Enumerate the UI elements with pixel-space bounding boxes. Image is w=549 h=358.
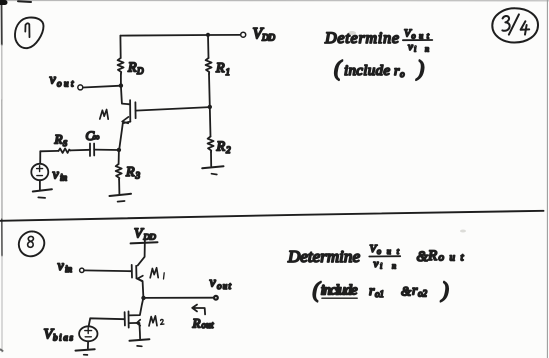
problem number 7 digit [25,23,29,37]
resistor R2 [208,137,214,153]
wire: rail down to R1 [207,35,210,58]
node: rail/R1 junction [206,33,210,37]
transistor M1 (P8) [132,265,144,298]
transistor M (P7) [119,86,135,150]
svg-text:v: v [53,168,60,183]
wire: Vin source up [39,151,41,163]
transistor M2 (P8) [125,298,144,339]
wire: Vout [83,86,121,88]
source Vbias [79,326,97,341]
source Vin (P7) [31,164,48,180]
scan artifact: top dash [18,0,31,3]
terminal Vin (P8) [80,268,84,272]
svg-text:&: & [401,284,412,299]
svg-text:V: V [134,227,144,242]
svg-text:out: out [217,281,231,291]
svg-text:o2: o2 [418,289,428,299]
label M2 (P8) [149,316,157,326]
svg-text:R: R [125,165,135,180]
node: R1-R2 junction [208,105,212,109]
label M (P7) [100,110,108,120]
wire: RD to drain node [120,74,122,86]
wire: RS to cap [71,149,91,152]
capacitor C∞ [93,144,95,156]
ground (R3) [110,194,132,196]
page label 3 [502,16,509,31]
scan artifact: bottom-left mark [1,350,3,351]
svg-text:include: include [321,283,358,299]
svg-text:R: R [427,248,437,264]
wire: junction to R2 [209,107,212,137]
svg-text:o: o [400,69,405,79]
svg-text:&: & [417,249,429,265]
svg-text:out: out [377,247,400,256]
scan artifact: right edge line [546,0,548,358]
ground (Vbias) [76,349,95,350]
node: drain/Vout junction [119,83,123,87]
terminal VDD [241,32,246,37]
arrow Rout [192,305,205,315]
svg-text:in: in [65,264,73,274]
svg-text:1: 1 [226,67,231,77]
resistor R3 [116,164,122,180]
svg-text:out: out [57,79,74,89]
resistor R1 [206,58,212,74]
problem number 7 circle [15,18,44,49]
svg-text:v: v [50,73,57,88]
wire: Vbias to ground [87,341,89,348]
svg-text:DD: DD [261,33,275,43]
wire: R1 to gate junction [208,74,211,107]
svg-text:R: R [54,132,63,147]
svg-text:3: 3 [135,171,141,181]
svg-text:v: v [210,276,217,291]
svg-text:Determine: Determine [324,30,399,47]
svg-text:∞: ∞ [93,132,99,142]
scan artifact: corner blob [0,0,5,5]
svg-text:Determine: Determine [287,247,360,266]
svg-text:include: include [344,63,390,79]
svg-text:): ) [415,56,424,81]
VDD supply bar (P8) [131,242,158,243]
label M1 (P8) [150,268,158,278]
svg-text:): ) [440,277,449,302]
wire: M2 gate to Vbias [89,318,125,326]
scan artifact: top edge line [0,0,549,2]
problem number 8 digit [28,236,34,247]
svg-text:out: out [202,320,214,330]
wire: junction to R3 [118,150,120,164]
page label 4 [521,21,530,34]
svg-text:v: v [374,258,379,270]
svg-text:D: D [136,66,144,76]
wire: Vin to RS [40,150,58,152]
wire: R3 to ground [118,180,120,194]
ground (R2) [202,166,223,168]
svg-text:v: v [408,41,413,53]
wire: R2 to ground [210,152,212,166]
svg-text:2: 2 [226,145,231,155]
terminal Vout (P7) [78,85,83,90]
wire: Vout (P8) [144,297,214,299]
scan artifact: left edge line [1,0,3,45]
svg-text:o1: o1 [375,289,384,299]
svg-text:R: R [192,316,201,331]
svg-text:S: S [63,139,67,148]
svg-text:v: v [58,259,65,274]
resistor RS [59,148,71,153]
ground (M2 source) [130,339,150,341]
svg-text:R: R [127,61,137,76]
svg-text:out: out [439,252,465,264]
wire: gate to divider [136,107,210,111]
separator line [0,211,544,221]
scan smudge marks [348,31,356,35]
svg-text:bias: bias [53,333,73,343]
wire: cap to junction [94,149,119,151]
problem number 8 circle [19,231,44,256]
svg-text:in: in [60,173,68,183]
node: M1 source / M2 drain / Vout [141,296,145,300]
svg-text:R: R [215,61,225,76]
wire: Vin to ground [39,180,41,189]
wire: rail down to RD [119,36,121,58]
page label slash [509,14,519,34]
wire: Vin to M1 gate [84,269,132,272]
page label 3/4 circle [492,8,538,42]
terminal Vout (P8) [214,296,218,300]
wire: VDD bar to M1 drain [138,240,145,266]
top rail wire VDD (P7) [120,34,239,37]
svg-text:R: R [216,140,226,155]
node: source/cap/R3 junction [117,148,121,152]
ground (Vin) [33,189,52,191]
resistor RD [118,58,124,74]
